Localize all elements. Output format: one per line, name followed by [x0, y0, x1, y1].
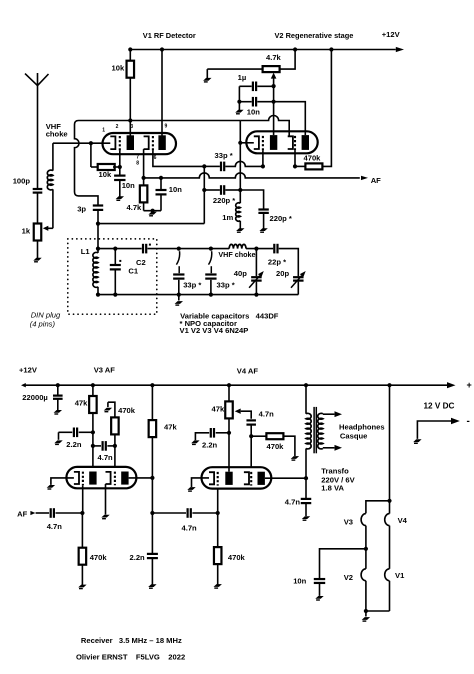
svg-text:C2: C2 [136, 258, 146, 267]
svg-text:33p *: 33p * [183, 280, 201, 289]
svg-text:47k: 47k [164, 423, 177, 432]
svg-text:Transfo: Transfo [321, 467, 349, 476]
svg-text:4.7k: 4.7k [266, 53, 282, 62]
svg-text:47k: 47k [75, 398, 88, 407]
svg-text:40p: 40p [234, 269, 247, 278]
svg-text:7: 7 [136, 154, 139, 160]
svg-text:47k: 47k [212, 404, 225, 413]
svg-text:20p: 20p [276, 269, 289, 278]
svg-text:V3 AF: V3 AF [94, 366, 116, 375]
svg-text:8: 8 [136, 161, 139, 167]
svg-text:-: - [467, 416, 470, 427]
svg-text:2.2n: 2.2n [130, 553, 146, 562]
svg-text:470k: 470k [90, 553, 108, 562]
svg-text:4.7n: 4.7n [182, 524, 198, 533]
svg-text:1m: 1m [222, 213, 233, 222]
svg-text:1: 1 [102, 128, 105, 134]
svg-text:9: 9 [165, 123, 168, 129]
svg-text:10n: 10n [169, 185, 182, 194]
svg-text:10n: 10n [293, 577, 306, 586]
svg-text:220p *: 220p * [213, 196, 235, 205]
svg-text:33p *: 33p * [215, 151, 233, 160]
svg-text:4.7n: 4.7n [47, 522, 63, 531]
svg-text:1µ: 1µ [238, 73, 247, 82]
svg-text:2.2n: 2.2n [66, 440, 82, 449]
svg-text:3: 3 [130, 124, 133, 130]
svg-text:V4: V4 [398, 516, 408, 525]
svg-text:4.7n: 4.7n [98, 453, 114, 462]
svg-text:470k: 470k [228, 553, 246, 562]
svg-text:100p: 100p [13, 176, 31, 185]
svg-text:Casque: Casque [340, 431, 367, 440]
svg-text:V1 RF Detector: V1 RF Detector [143, 31, 196, 40]
svg-text:V3: V3 [344, 518, 353, 527]
svg-text:12 V DC: 12 V DC [424, 401, 455, 410]
svg-text:4.7k: 4.7k [127, 203, 143, 212]
svg-text:AF: AF [17, 509, 27, 518]
svg-text:22p *: 22p * [268, 257, 286, 266]
svg-text:(4 pins): (4 pins) [30, 319, 56, 328]
svg-text:V2 Regenerative stage: V2 Regenerative stage [275, 31, 354, 40]
svg-text:10n: 10n [122, 181, 135, 190]
svg-text:+: + [467, 380, 472, 390]
svg-text:AF: AF [371, 176, 381, 185]
svg-text:Headphones: Headphones [339, 422, 385, 431]
svg-text:3p: 3p [77, 204, 86, 213]
svg-text:470k: 470k [118, 406, 136, 415]
svg-text:L1: L1 [81, 247, 91, 256]
svg-text:6: 6 [154, 155, 157, 161]
svg-text:+12V: +12V [19, 366, 38, 375]
svg-text:V1: V1 [395, 571, 405, 580]
svg-text:V1 V2 V3 V4 6N24P: V1 V2 V3 V4 6N24P [180, 326, 249, 335]
svg-text:10n: 10n [247, 108, 260, 117]
svg-text:+12V: +12V [382, 30, 401, 39]
svg-text:4.7n: 4.7n [285, 498, 301, 507]
svg-text:470k: 470k [267, 442, 285, 451]
svg-text:220p *: 220p * [270, 214, 292, 223]
svg-text:V4 AF: V4 AF [237, 366, 259, 375]
svg-text:choke: choke [46, 130, 68, 139]
svg-text:2: 2 [116, 124, 119, 130]
svg-text:33p *: 33p * [217, 280, 235, 289]
svg-text:Olivier ERNST F5LVG 2022: Olivier ERNST F5LVG 2022 [76, 653, 185, 662]
svg-text:1k: 1k [22, 227, 31, 236]
svg-text:470k: 470k [304, 154, 322, 163]
svg-text:2.2n: 2.2n [202, 441, 218, 450]
svg-text:4.7n: 4.7n [259, 410, 275, 419]
svg-text:10k: 10k [112, 63, 125, 72]
svg-text:VHF choke: VHF choke [218, 250, 255, 259]
svg-text:V2: V2 [344, 573, 353, 582]
svg-text:C1: C1 [128, 267, 138, 276]
svg-text:1.8 VA: 1.8 VA [321, 484, 344, 493]
svg-text:Receiver 3.5 MHz – 18 MHz: Receiver 3.5 MHz – 18 MHz [81, 636, 182, 645]
svg-text:22000µ: 22000µ [22, 393, 48, 402]
svg-text:DIN plug: DIN plug [31, 311, 61, 320]
svg-text:10k: 10k [99, 170, 112, 179]
